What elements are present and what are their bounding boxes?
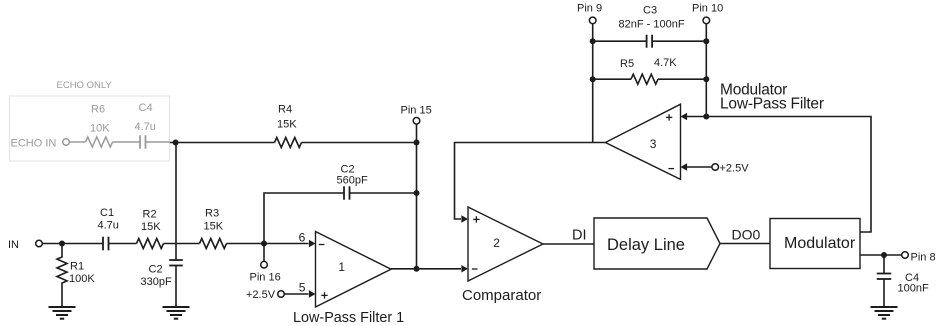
svg-text:R4: R4 — [278, 104, 292, 116]
svg-text:Pin 8: Pin 8 — [911, 251, 936, 263]
svg-text:R5: R5 — [620, 58, 634, 70]
svg-text:Low-Pass Filter: Low-Pass Filter — [720, 96, 824, 113]
svg-text:3: 3 — [650, 137, 657, 151]
svg-text:+2.5V: +2.5V — [720, 163, 750, 175]
svg-text:ECHO IN: ECHO IN — [11, 138, 57, 150]
svg-text:DO0: DO0 — [732, 227, 761, 243]
svg-text:Comparator: Comparator — [462, 287, 541, 304]
svg-text:C2: C2 — [149, 264, 163, 276]
svg-text:5: 5 — [299, 281, 306, 295]
svg-text:Pin 15: Pin 15 — [401, 105, 432, 117]
svg-text:IN: IN — [8, 239, 19, 251]
svg-text:C3: C3 — [643, 5, 657, 17]
svg-text:ECHO ONLY: ECHO ONLY — [57, 80, 113, 91]
svg-text:2: 2 — [493, 236, 500, 250]
svg-text:C4: C4 — [139, 102, 153, 114]
svg-text:100nF: 100nF — [898, 283, 929, 295]
svg-text:R2: R2 — [143, 209, 157, 221]
svg-text:C1: C1 — [100, 207, 114, 219]
svg-text:R3: R3 — [205, 208, 219, 220]
svg-text:R6: R6 — [91, 104, 105, 116]
svg-text:Modulator: Modulator — [784, 235, 856, 252]
svg-text:15K: 15K — [141, 221, 161, 233]
svg-text:Low-Pass Filter 1: Low-Pass Filter 1 — [293, 310, 404, 326]
svg-text:+2.5V: +2.5V — [246, 289, 276, 301]
svg-text:82nF - 100nF: 82nF - 100nF — [619, 19, 685, 31]
svg-text:Pin 10: Pin 10 — [692, 3, 723, 15]
svg-text:15K: 15K — [204, 221, 224, 233]
svg-text:560pF: 560pF — [337, 175, 368, 187]
svg-text:330pF: 330pF — [141, 276, 172, 288]
svg-text:Pin 16: Pin 16 — [250, 272, 281, 284]
svg-text:DI: DI — [572, 228, 587, 244]
svg-text:R1: R1 — [70, 261, 84, 273]
svg-text:Pin 9: Pin 9 — [577, 3, 602, 15]
svg-text:4.7u: 4.7u — [98, 220, 119, 232]
svg-text:10K: 10K — [90, 123, 110, 135]
svg-text:4.7u: 4.7u — [135, 121, 156, 133]
svg-text:100K: 100K — [69, 273, 95, 285]
svg-text:15K: 15K — [277, 119, 297, 131]
svg-text:Delay Line: Delay Line — [607, 236, 685, 254]
svg-text:6: 6 — [299, 231, 306, 245]
svg-text:1: 1 — [338, 260, 345, 274]
svg-text:4.7K: 4.7K — [654, 57, 677, 69]
